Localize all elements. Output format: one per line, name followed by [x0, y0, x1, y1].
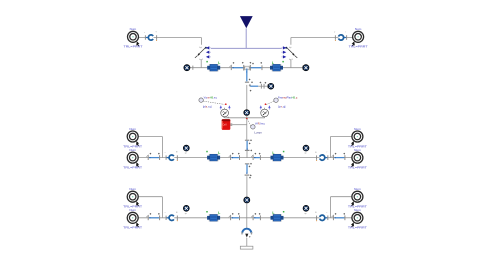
- svg-text:TRL=PRRT: TRL=PRRT: [348, 205, 367, 209]
- dc block X6: [165, 211, 178, 221]
- port P6: [348, 148, 367, 169]
- port P7: [123, 187, 142, 208]
- current probe I8: [303, 205, 309, 215]
- svg-text:L,myn: L,myn: [254, 132, 262, 135]
- svg-text:Cell: Cell: [222, 125, 226, 127]
- capacitor C6: [229, 153, 240, 160]
- svg-text:qn: qn: [185, 213, 187, 215]
- svg-text:L: L: [272, 151, 274, 155]
- svg-text:L: L: [272, 211, 274, 215]
- junction marks: [245, 79, 253, 92]
- inductor L5: [206, 211, 220, 222]
- capacitor C13: [245, 163, 252, 179]
- port P5: [348, 127, 367, 148]
- port P2: [349, 27, 368, 48]
- svg-text:qn: qn: [304, 213, 306, 215]
- wire supply rail: [211, 47, 282, 49]
- pin bar: [301, 66, 304, 70]
- tune arrows SRC2: [260, 105, 271, 109]
- svg-text:Num: Num: [355, 27, 362, 31]
- capacitor C11: [251, 213, 261, 220]
- inductor L3: [206, 151, 220, 161]
- inductor L6: [271, 211, 285, 222]
- wire VDD vertical: [245, 28, 247, 48]
- dc source V1: [222, 117, 247, 130]
- wire port P1 to Q1: [139, 38, 202, 45]
- svg-text:TRL=PRRT: TRL=PRRT: [348, 165, 367, 169]
- dc block X7: [315, 211, 328, 221]
- capacitor C1: [229, 62, 243, 70]
- wire to pad: [246, 238, 248, 246]
- svg-text:TRL=PRRT: TRL=PRRT: [348, 144, 367, 148]
- port P4: [123, 148, 142, 169]
- wire center column upper: [246, 85, 248, 110]
- current probe I2: [303, 65, 309, 71]
- current probe I3: [268, 83, 274, 89]
- svg-text:TRL=PRRT: TRL=PRRT: [123, 165, 142, 169]
- svg-text:Num: Num: [130, 27, 137, 31]
- capacitor C12: [332, 213, 346, 220]
- dc block X1: [144, 31, 157, 41]
- capacitor C3: [260, 82, 269, 89]
- leader line: [266, 101, 273, 104]
- wire osc bus: [225, 117, 265, 118]
- capacitor C10: [229, 213, 240, 220]
- wire crystal branch down: [246, 69, 248, 82]
- svg-text:L: L: [272, 61, 274, 65]
- dc block X4: [165, 151, 178, 161]
- svg-text:TRL=PRRT: TRL=PRRT: [123, 144, 142, 148]
- svg-text:Num: Num: [354, 148, 361, 152]
- svg-text:Num: Num: [354, 187, 361, 191]
- dc block X5: [315, 151, 328, 161]
- wire Q2 emitter: [290, 60, 292, 68]
- wire branch to probe: [250, 85, 268, 87]
- capacitor C7: [251, 153, 261, 160]
- junction node dot: [246, 117, 248, 119]
- current probe I7: [183, 205, 189, 215]
- port P9: [348, 187, 367, 208]
- ground dome: [241, 229, 252, 238]
- wire mid column: [246, 176, 248, 197]
- crystal X3: [242, 62, 251, 73]
- port P1: [124, 27, 143, 48]
- svg-text:TRL=PRRT: TRL=PRRT: [123, 205, 142, 209]
- wire below row3: [246, 218, 248, 229]
- svg-text:Num: Num: [129, 127, 136, 131]
- svg-text:VAR,freq: VAR,freq: [255, 123, 265, 126]
- wire upper-left port feed: [138, 137, 162, 158]
- svg-text:L: L: [218, 211, 220, 215]
- leader line: [247, 119, 251, 126]
- svg-text:Num: Num: [129, 148, 136, 152]
- port P10: [348, 208, 367, 229]
- oscillator source SRC2: [261, 108, 269, 118]
- wire to row2: [246, 150, 248, 157]
- svg-text:L: L: [218, 61, 220, 65]
- leader line: [203, 101, 224, 104]
- label balloon B1: [199, 98, 203, 102]
- wire center column mid: [246, 115, 248, 139]
- svg-text:L: L: [218, 151, 220, 155]
- label balloon B3: [251, 125, 255, 129]
- inductor L4: [271, 151, 285, 161]
- wire port P2 to Q2: [291, 38, 353, 45]
- port P8: [123, 208, 142, 229]
- svg-text:VtuneHB,eq: VtuneHB,eq: [204, 96, 218, 99]
- svg-text:Num: Num: [354, 208, 361, 212]
- transistor Q2: [281, 46, 297, 61]
- svg-text:TRL=PRRT: TRL=PRRT: [348, 226, 367, 230]
- wire row bus y157.6: [138, 157, 352, 159]
- wire upper-left port feed: [138, 197, 162, 218]
- label balloon B2: [274, 98, 278, 102]
- svg-text:TRL=PRRT: TRL=PRRT: [124, 45, 143, 49]
- svg-text:TRL=PRRT: TRL=PRRT: [123, 226, 142, 230]
- node dot SRC2: [265, 103, 267, 105]
- svg-text:[pla,r,q]: [pla,r,q]: [203, 106, 212, 109]
- svg-text:FsweepPlanHB,q: FsweepPlanHB,q: [278, 96, 298, 99]
- tune arrows SRC1: [220, 105, 231, 109]
- wire to row3: [246, 203, 248, 218]
- current probe I5: [183, 145, 189, 154]
- VDD supply triangle: [240, 16, 253, 28]
- capacitor C2: [251, 62, 263, 70]
- current probe I6: [303, 145, 309, 154]
- port P3: [123, 127, 142, 148]
- current probe I1: [184, 65, 190, 71]
- capacitor C9: [146, 213, 160, 220]
- inductor L1: [206, 61, 220, 72]
- svg-text:Num: Num: [129, 208, 136, 212]
- svg-text:Num: Num: [354, 127, 361, 131]
- wire upper-right port feed: [331, 197, 352, 218]
- transistor Q1: [195, 46, 211, 61]
- svg-text:bjt: bjt: [289, 46, 292, 49]
- node dot SRC1: [225, 103, 227, 105]
- svg-text:TRL=PRRT: TRL=PRRT: [349, 45, 368, 49]
- svg-text:bjt: bjt: [200, 46, 203, 49]
- svg-text:[pr,q]: [pr,q]: [278, 106, 285, 109]
- svg-text:qn: qn: [304, 153, 306, 155]
- svg-text:Num: Num: [129, 187, 136, 191]
- current probe I9: [244, 197, 250, 203]
- svg-text:qn: qn: [185, 153, 187, 155]
- inductor L2: [270, 61, 284, 72]
- capacitor C5: [146, 153, 160, 160]
- wire row bus y217.8: [138, 217, 352, 219]
- wire Q1 emitter: [200, 60, 202, 68]
- pin bar: [191, 66, 194, 70]
- wire upper-right port feed: [331, 137, 352, 158]
- current probe I4: [244, 110, 250, 116]
- capacitor C8: [332, 153, 346, 160]
- capacitor C4: [245, 139, 252, 151]
- oscillator source SRC1: [221, 108, 229, 118]
- wire resonator row: [187, 67, 306, 69]
- pad rectangle: [240, 246, 253, 249]
- dc block X2: [334, 31, 347, 41]
